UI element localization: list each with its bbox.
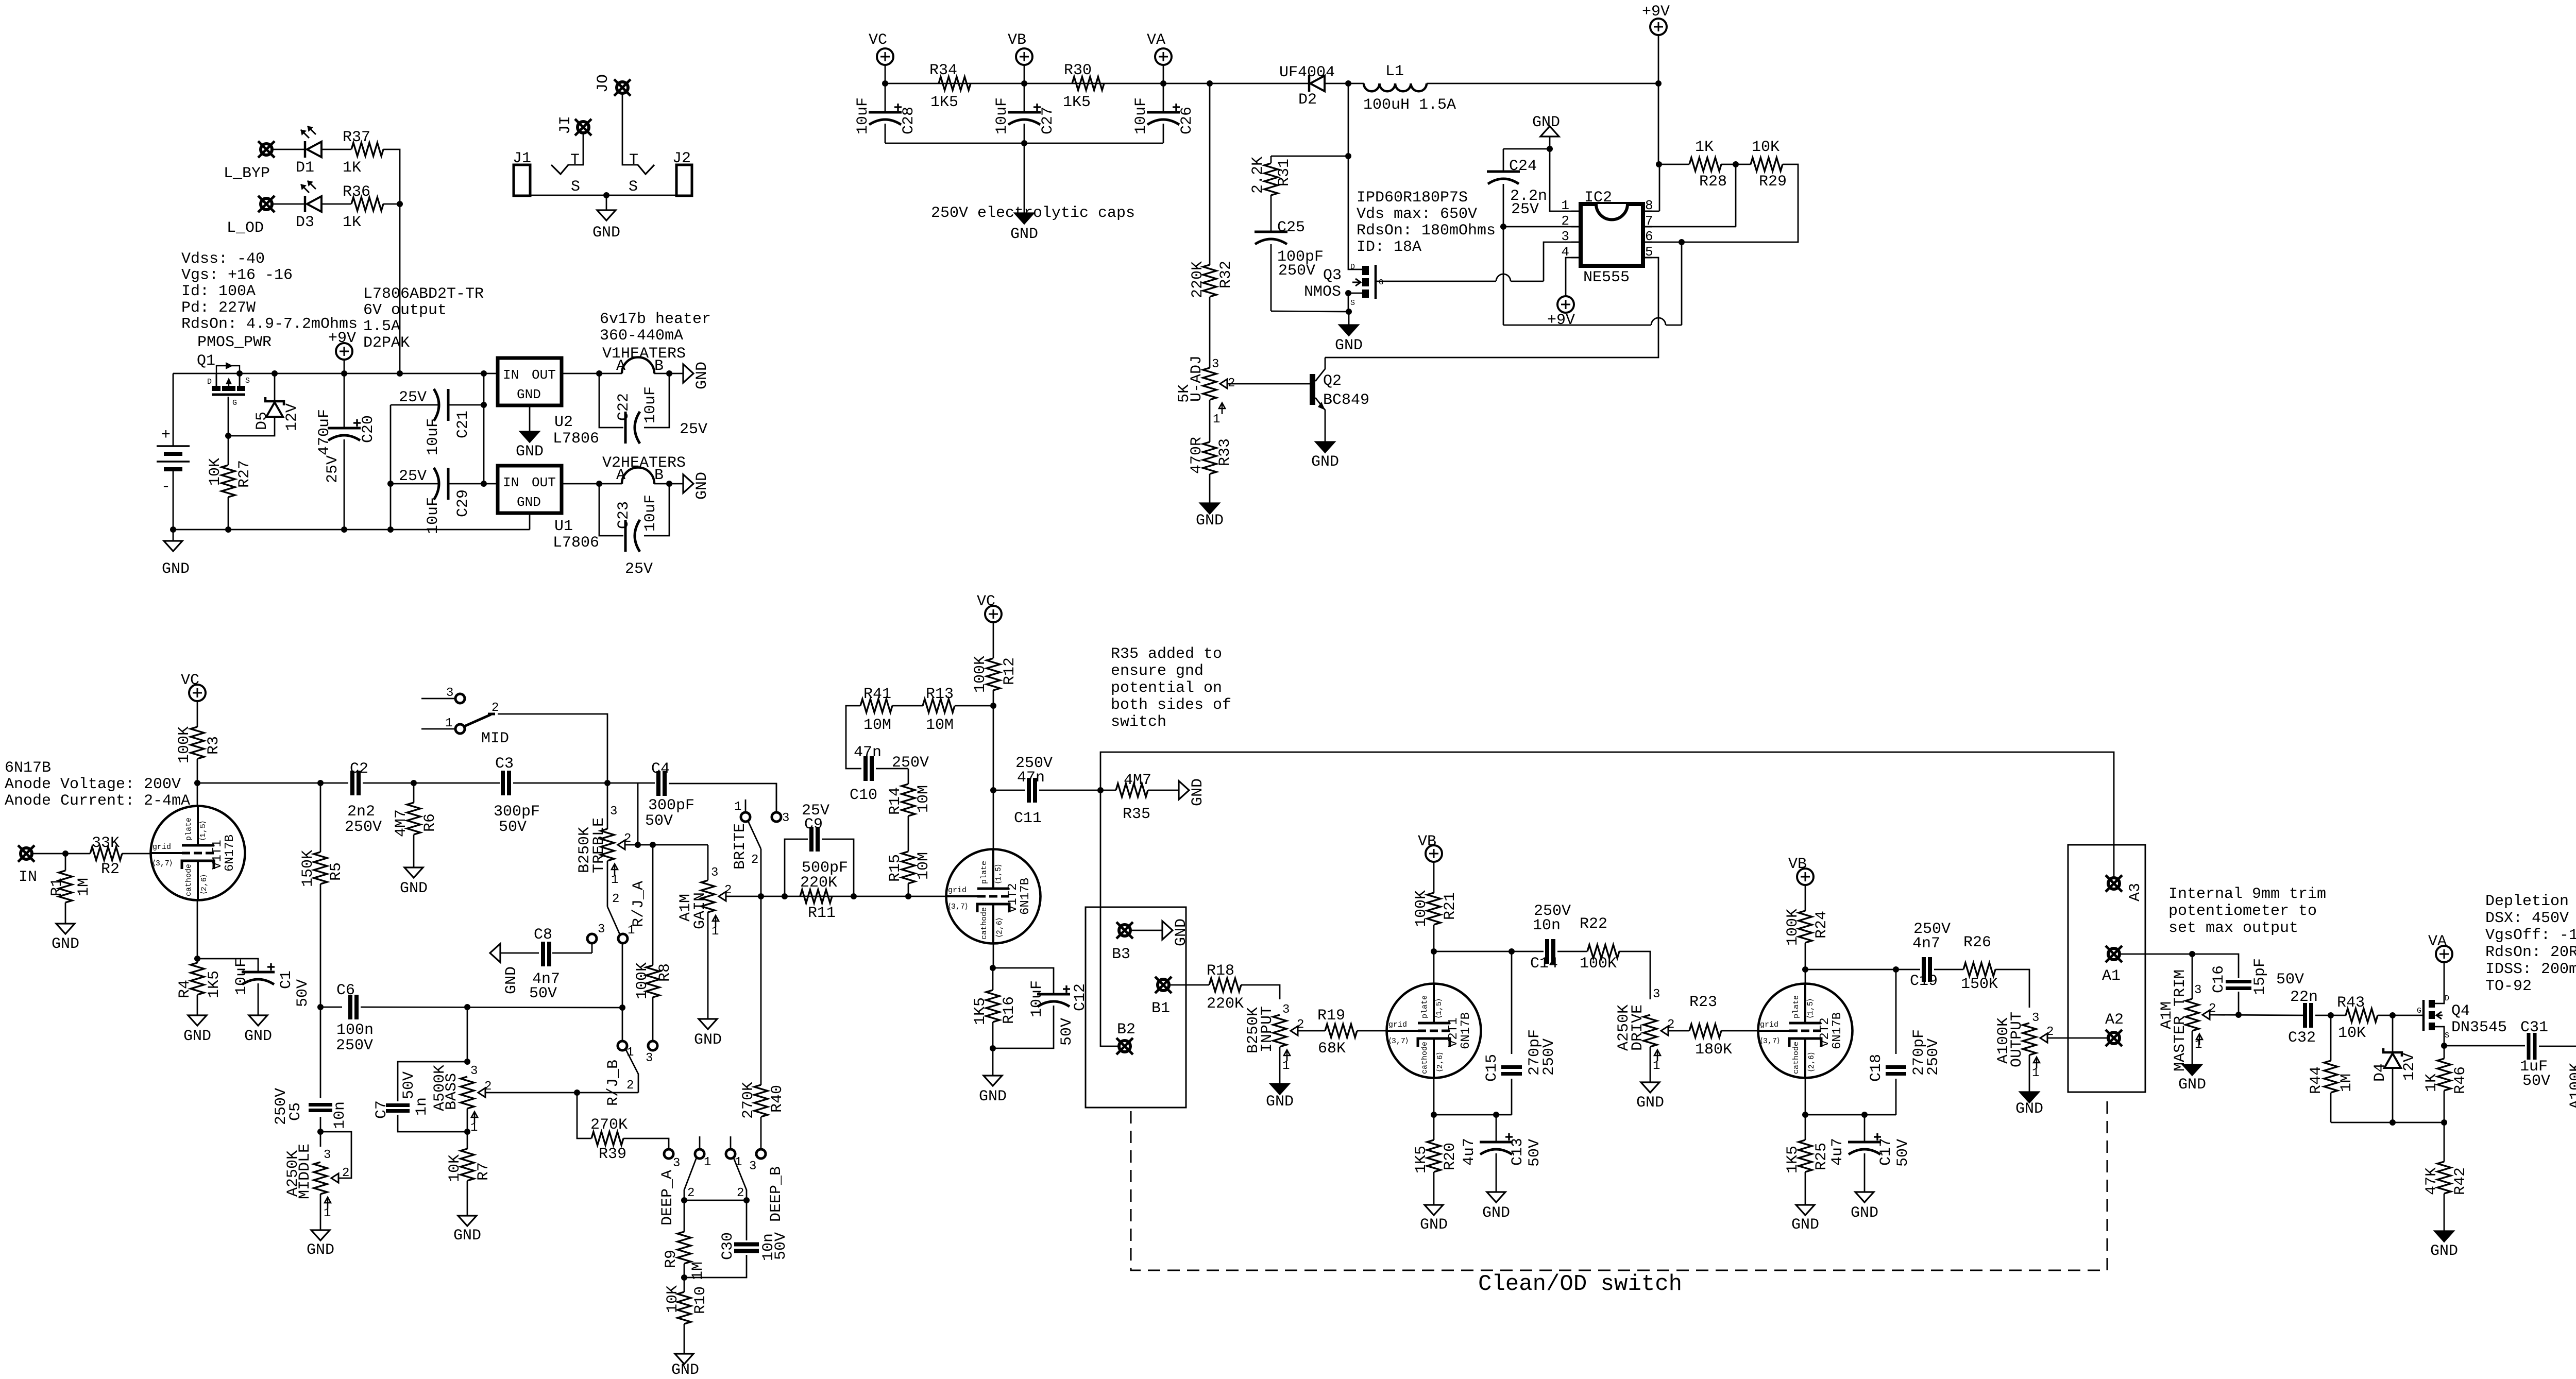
svg-text:Vgs: +16 -16: Vgs: +16 -16 xyxy=(181,267,293,284)
svg-text:100K: 100K xyxy=(634,962,651,999)
svg-text:25V: 25V xyxy=(680,421,707,438)
resistor R41 10M xyxy=(860,699,892,712)
wire C2-C3 xyxy=(363,782,500,784)
svg-text:+9V: +9V xyxy=(328,330,356,347)
jack JO tip contact xyxy=(622,93,638,165)
svg-text:R8: R8 xyxy=(656,963,674,982)
ground R25 xyxy=(1805,1172,1806,1205)
svg-text:10uF: 10uF xyxy=(993,97,1011,134)
wire R44/D4/R46 bottom row xyxy=(2330,1093,2332,1122)
wire MID to plate node xyxy=(498,714,607,783)
svg-text:2: 2 xyxy=(492,701,499,715)
svg-text:INPUT: INPUT xyxy=(1259,1006,1276,1052)
svg-text:DEEP_B: DEEP_B xyxy=(768,1166,785,1222)
switch MID xyxy=(455,694,465,703)
switch DEEP_B xyxy=(726,1149,735,1159)
svg-text:R/J_B: R/J_B xyxy=(605,1060,622,1106)
svg-text:G: G xyxy=(2417,1007,2421,1015)
capacitor C16 15pF xyxy=(2192,954,2239,978)
capacitor C6 100n 250V xyxy=(348,995,352,1019)
svg-text:1K5: 1K5 xyxy=(1063,94,1091,111)
wire C6 row xyxy=(320,884,321,1007)
wire D1-R37 xyxy=(321,149,351,150)
svg-text:8: 8 xyxy=(1645,198,1653,213)
wire R41-R13 xyxy=(892,705,923,707)
resistor R7 10K xyxy=(467,1132,468,1149)
svg-text:GND: GND xyxy=(693,472,711,500)
svg-text:10M: 10M xyxy=(915,852,933,880)
svg-text:B3: B3 xyxy=(1112,946,1130,963)
battery BT1 xyxy=(173,373,174,446)
svg-text:47K: 47K xyxy=(2423,1167,2441,1195)
svg-text:GND: GND xyxy=(517,387,541,402)
svg-text:C19: C19 xyxy=(1910,973,1938,990)
ground R1 xyxy=(65,903,66,924)
svg-text:Anode Voltage: 200V: Anode Voltage: 200V xyxy=(5,776,181,793)
wire C31 to MASTER pin3 xyxy=(2539,1046,2576,1069)
svg-text:RdsOn: 180mOhms: RdsOn: 180mOhms xyxy=(1357,222,1496,240)
svg-text:GND: GND xyxy=(1189,778,1207,806)
svg-text:50V: 50V xyxy=(1894,1139,1912,1167)
svg-text:DSX: 450V: DSX: 450V xyxy=(2485,910,2569,927)
ground R20 xyxy=(1433,1172,1435,1205)
ground jack sleeve xyxy=(603,192,609,198)
svg-text:5: 5 xyxy=(1645,244,1653,260)
ground R7 xyxy=(467,1181,468,1216)
svg-text:10uF: 10uF xyxy=(642,386,659,423)
svg-text:S: S xyxy=(571,178,580,196)
wire pin2-pin6 loop xyxy=(1503,227,1504,325)
wire R9-R10 junction xyxy=(684,1264,685,1292)
resistor R14 10M xyxy=(908,816,909,852)
svg-text:+: + xyxy=(161,427,171,444)
wire GAIN pin3 xyxy=(707,845,709,880)
port L_OD xyxy=(261,198,272,210)
svg-text:22n: 22n xyxy=(2290,989,2318,1006)
svg-text:GND: GND xyxy=(1791,1216,1819,1234)
svg-text:6N17B: 6N17B xyxy=(1831,1012,1844,1049)
svg-text:L7806: L7806 xyxy=(553,534,599,552)
capacitor C17 4u7 50V xyxy=(1805,1114,1896,1116)
svg-text:1K: 1K xyxy=(1695,139,1714,156)
svg-text:3: 3 xyxy=(598,923,605,937)
svg-text:C14: C14 xyxy=(1530,955,1558,973)
svg-text:250V: 250V xyxy=(336,1037,373,1054)
svg-text:33K: 33K xyxy=(92,835,120,852)
svg-text:C8: C8 xyxy=(534,926,552,944)
svg-text:2: 2 xyxy=(1228,377,1235,390)
svg-text:A1: A1 xyxy=(2102,967,2121,985)
svg-text:100K: 100K xyxy=(176,726,193,763)
resistor R36 1K xyxy=(351,197,383,211)
svg-text:DEEP_A: DEEP_A xyxy=(659,1170,676,1225)
svg-text:GND: GND xyxy=(1335,337,1363,354)
svg-text:OUT: OUT xyxy=(532,475,556,490)
svg-text:MASTER TRIM: MASTER TRIM xyxy=(2172,969,2189,1071)
svg-text:Vds max: 650V: Vds max: 650V xyxy=(1357,206,1477,223)
svg-text:GND: GND xyxy=(1482,1204,1510,1222)
svg-text:Q3: Q3 xyxy=(1323,267,1342,284)
potentiometer DRIVE A250K xyxy=(1643,1015,1657,1047)
svg-text:GND: GND xyxy=(400,880,428,897)
svg-text:150K: 150K xyxy=(1961,976,1998,993)
ground R35 xyxy=(1148,790,1179,791)
svg-text:cathode: cathode xyxy=(184,864,193,896)
power +9V top xyxy=(1650,19,1667,35)
wire trim wiper row xyxy=(2210,1015,2303,1015)
wire +9V column to R28/pin8 xyxy=(1658,83,1659,164)
svg-text:50V: 50V xyxy=(1526,1139,1544,1167)
svg-text:GND: GND xyxy=(52,935,79,953)
wire cap ground rail xyxy=(885,143,1163,144)
resistor R24 100K xyxy=(1799,911,1812,943)
resistor R32 220K xyxy=(1209,83,1211,265)
svg-text:NMOS: NMOS xyxy=(1304,283,1341,301)
resistor R23 180K xyxy=(1689,1024,1721,1037)
wire Q3 gate to 555 pin3 xyxy=(1376,281,1496,282)
svg-text:1M: 1M xyxy=(75,878,93,896)
wire R43 to Q4 gate xyxy=(2378,1015,2422,1016)
svg-text:GND: GND xyxy=(1420,1216,1448,1234)
svg-text:C2: C2 xyxy=(350,760,368,778)
zener D4 12V xyxy=(2392,1015,2394,1052)
svg-text:L1: L1 xyxy=(1385,63,1404,80)
svg-text:100K: 100K xyxy=(1580,955,1617,973)
ground INPUT xyxy=(1279,1047,1281,1084)
svg-text:R7: R7 xyxy=(475,1162,493,1181)
svg-text:10uF: 10uF xyxy=(1132,97,1150,134)
resistor R42 47K xyxy=(2444,1122,2445,1162)
resistor R16 1K5 xyxy=(992,968,994,990)
svg-text:3: 3 xyxy=(711,866,718,880)
switch R/J_A xyxy=(587,934,597,943)
ic IC2 NE555 xyxy=(1581,204,1643,266)
svg-text:10K: 10K xyxy=(2338,1025,2366,1042)
svg-text:G: G xyxy=(232,399,237,407)
svg-text:180K: 180K xyxy=(1695,1041,1732,1059)
svg-text:C28: C28 xyxy=(900,107,918,134)
wire V2T2 plate node xyxy=(1805,943,1806,984)
ground DRIVE xyxy=(1650,1047,1651,1082)
tube V2T1 cathode node xyxy=(1433,1078,1435,1115)
svg-text:50V: 50V xyxy=(2276,971,2304,989)
svg-text:10M: 10M xyxy=(863,717,891,734)
wire D2 junction xyxy=(1325,83,1364,84)
wire IN xyxy=(32,853,90,855)
svg-text:R42: R42 xyxy=(2452,1167,2469,1195)
capacitor C32 22n 50V xyxy=(2303,1003,2307,1028)
svg-text:⟨2,6⟩: ⟨2,6⟩ xyxy=(1807,1052,1816,1072)
svg-text:R25: R25 xyxy=(1813,1143,1831,1170)
capacitor C25 100pF 250V xyxy=(1270,195,1272,231)
ground R10 xyxy=(684,1324,685,1354)
wire ground rail xyxy=(173,529,530,531)
capacitor C3 300pF 50V xyxy=(501,771,505,795)
svg-text:IN: IN xyxy=(503,367,519,383)
wire C14 to R22 xyxy=(1557,951,1587,952)
ground MASTER TRIM xyxy=(2192,1031,2193,1065)
wire R/J_A pin3 to C8 xyxy=(591,943,593,953)
svg-text:⟨1,5⟩: ⟨1,5⟩ xyxy=(994,864,1003,884)
svg-text:R21: R21 xyxy=(1442,892,1459,920)
svg-text:220K: 220K xyxy=(1207,995,1244,1013)
svg-text:2: 2 xyxy=(2046,1025,2054,1039)
resistor R12 100K xyxy=(987,658,1000,690)
svg-text:R44: R44 xyxy=(2308,1066,2325,1094)
svg-text:1n: 1n xyxy=(413,1097,431,1116)
power VC V1T2 xyxy=(985,606,1002,622)
svg-text:1.5A: 1.5A xyxy=(363,318,400,335)
svg-text:BC849: BC849 xyxy=(1323,391,1369,409)
svg-text:3: 3 xyxy=(324,1148,331,1162)
capacitor C13 4u7 50V xyxy=(1434,1114,1512,1116)
svg-text:3: 3 xyxy=(2194,983,2201,997)
svg-text:VC: VC xyxy=(869,31,887,49)
svg-text:R46: R46 xyxy=(2452,1066,2469,1094)
capacitor C26 10uF xyxy=(1163,83,1164,111)
capacitor C20 470uF 25V xyxy=(341,370,347,377)
capacitor C28 10uF xyxy=(885,83,886,111)
ground B3 xyxy=(1130,930,1162,931)
svg-text:6V output: 6V output xyxy=(363,302,447,319)
svg-text:1: 1 xyxy=(704,1155,711,1169)
svg-text:R31: R31 xyxy=(1276,159,1293,186)
port IN xyxy=(21,848,32,859)
svg-text:R39: R39 xyxy=(599,1146,626,1163)
svg-text:50V: 50V xyxy=(2522,1072,2550,1090)
regulator U1 L7806 xyxy=(498,466,562,513)
svg-text:2: 2 xyxy=(737,1186,744,1200)
power VB V2T2 xyxy=(1797,869,1814,885)
svg-text:10K: 10K xyxy=(664,1285,682,1313)
svg-text:VB: VB xyxy=(1418,833,1436,850)
svg-text:IN: IN xyxy=(503,475,519,490)
svg-text:R28: R28 xyxy=(1699,173,1727,191)
svg-text:10n: 10n xyxy=(331,1101,349,1129)
wire DEEP levers common xyxy=(684,1200,747,1201)
ground V2 heater xyxy=(669,483,683,485)
wire IN risers xyxy=(397,370,403,377)
wire R23 to V2T2 grid xyxy=(1721,1030,1758,1032)
svg-text:R33: R33 xyxy=(1216,438,1234,466)
wire C11 to R35 node xyxy=(1039,790,1100,791)
svg-text:3: 3 xyxy=(2032,1011,2039,1025)
svg-text:250V: 250V xyxy=(892,754,929,772)
svg-text:1: 1 xyxy=(1282,1059,1290,1073)
switch DEEP_A xyxy=(664,1149,673,1159)
svg-text:DN3545: DN3545 xyxy=(2451,1019,2507,1036)
svg-text:⟨2,6⟩: ⟨2,6⟩ xyxy=(1436,1052,1445,1072)
svg-text:470R: 470R xyxy=(1188,437,1206,474)
svg-text:VA: VA xyxy=(1147,31,1165,49)
svg-text:C12: C12 xyxy=(1072,983,1089,1011)
svg-text:R12: R12 xyxy=(1001,657,1019,685)
potentiometer MASTER TRIM A1M xyxy=(2192,954,2193,999)
svg-text:10uF: 10uF xyxy=(1028,980,1046,1017)
svg-text:GND: GND xyxy=(517,495,541,510)
svg-text:C26: C26 xyxy=(1178,107,1196,134)
svg-text:potential on: potential on xyxy=(1111,679,1222,697)
potentiometer MIDDLE A250K xyxy=(320,1132,321,1147)
svg-text:C11: C11 xyxy=(1014,810,1042,827)
capacitor C5 10n 250V xyxy=(320,1007,321,1098)
svg-text:VB: VB xyxy=(1788,856,1807,873)
svg-text:15pF: 15pF xyxy=(2251,958,2269,995)
svg-text:GAIN: GAIN xyxy=(691,892,709,929)
svg-text:V2T2: V2T2 xyxy=(1818,1017,1832,1047)
svg-text:V1HEATERS: V1HEATERS xyxy=(602,345,686,363)
resistor R44 1M xyxy=(2330,1015,2332,1061)
svg-text:GND: GND xyxy=(503,966,520,994)
svg-text:D: D xyxy=(1350,263,1355,271)
svg-text:3: 3 xyxy=(1212,357,1219,371)
wire R28-R29 junction to pin7 xyxy=(1721,164,1751,165)
svg-text:T: T xyxy=(629,151,638,169)
svg-text:6N17B: 6N17B xyxy=(223,835,237,872)
svg-text:10n: 10n xyxy=(1533,917,1561,934)
svg-text:GND: GND xyxy=(1173,918,1190,946)
svg-text:GND: GND xyxy=(1196,512,1224,530)
svg-text:C20: C20 xyxy=(360,415,377,443)
svg-text:GND: GND xyxy=(1636,1094,1664,1112)
svg-text:G: G xyxy=(1379,278,1383,287)
wire L1 to +9V xyxy=(1427,83,1658,84)
svg-text:D4: D4 xyxy=(2371,1063,2389,1082)
svg-text:C18: C18 xyxy=(1868,1054,1885,1082)
svg-text:10uF: 10uF xyxy=(425,418,442,455)
svg-text:2: 2 xyxy=(1297,1018,1304,1032)
resistor R20 1K5 xyxy=(1433,1115,1435,1140)
wire GAIN wiper to grid row xyxy=(726,896,761,897)
svg-text:GND: GND xyxy=(1010,226,1038,243)
svg-text:both sides of: both sides of xyxy=(1111,696,1231,714)
svg-text:1: 1 xyxy=(1213,413,1220,427)
svg-text:A2: A2 xyxy=(2105,1011,2124,1029)
resistor R10 10K xyxy=(677,1292,691,1324)
svg-text:VB: VB xyxy=(1008,31,1026,49)
svg-text:plate: plate xyxy=(1792,995,1801,1018)
svg-text:2: 2 xyxy=(1667,1018,1674,1032)
potentiometer TREBLE B250K xyxy=(607,783,608,829)
svg-text:R30: R30 xyxy=(1064,62,1092,79)
svg-text:360-440mA: 360-440mA xyxy=(600,327,683,345)
resistor R39 270K xyxy=(591,1132,623,1145)
svg-text:2: 2 xyxy=(624,832,631,846)
svg-text:GND: GND xyxy=(979,1088,1007,1105)
ground C13 xyxy=(1487,1192,1505,1202)
svg-text:V1T1: V1T1 xyxy=(211,840,225,870)
svg-text:100K: 100K xyxy=(1413,890,1430,927)
wire V1T1 plate node xyxy=(197,759,198,783)
svg-text:NE555: NE555 xyxy=(1583,269,1630,286)
port JI xyxy=(578,122,589,133)
ground battery xyxy=(170,526,176,533)
svg-text:R24: R24 xyxy=(1813,911,1831,939)
wire V1T2 plate node xyxy=(993,706,994,790)
wire R22 to DRIVE xyxy=(1619,951,1650,999)
wire R37 to rail xyxy=(383,149,400,204)
svg-text:⟨2,6⟩: ⟨2,6⟩ xyxy=(995,917,1004,938)
resistor R19 68K xyxy=(1325,1024,1357,1037)
wire pin4 to +9V xyxy=(1566,258,1571,296)
wire switch node to A3 xyxy=(1100,752,2114,878)
svg-text:C10: C10 xyxy=(850,787,877,804)
resistor R1 1M xyxy=(65,854,66,871)
svg-text:1: 1 xyxy=(611,873,618,887)
svg-text:D2PAK: D2PAK xyxy=(363,334,410,352)
capacitor C19 4n7 250V xyxy=(1922,957,1926,982)
svg-text:GND: GND xyxy=(2015,1100,2043,1118)
ground R33 xyxy=(1209,474,1211,503)
svg-text:10K: 10K xyxy=(1752,139,1780,156)
ground V1 heater xyxy=(669,373,683,374)
led D1 xyxy=(272,149,305,150)
wire R18 to INPUT pot xyxy=(1241,985,1280,999)
ground U2 xyxy=(529,405,531,432)
svg-text:10M: 10M xyxy=(915,785,933,813)
svg-text:⟨1,5⟩: ⟨1,5⟩ xyxy=(1806,998,1815,1018)
svg-text:1K: 1K xyxy=(343,214,361,231)
svg-text:3: 3 xyxy=(610,805,617,819)
svg-text:GND: GND xyxy=(2430,1242,2458,1260)
svg-text:470uF: 470uF xyxy=(316,409,333,455)
svg-text:50V: 50V xyxy=(529,985,557,1002)
svg-text:1K5: 1K5 xyxy=(930,94,958,111)
svg-text:VC: VC xyxy=(977,593,995,610)
svg-text:47n: 47n xyxy=(1017,769,1045,787)
power +9V 555 xyxy=(1557,296,1574,313)
svg-text:R14: R14 xyxy=(887,787,904,815)
svg-text:plate: plate xyxy=(184,818,193,841)
svg-text:3: 3 xyxy=(1561,229,1569,244)
svg-text:GND: GND xyxy=(1851,1204,1878,1222)
svg-text:T: T xyxy=(570,151,580,169)
resistor R29 10K xyxy=(1751,158,1783,171)
wire R2 to V1T1 grid xyxy=(122,853,150,855)
ground R16/C12 xyxy=(992,1022,994,1048)
svg-text:A3: A3 xyxy=(2127,883,2144,901)
svg-text:RdsOn: 20R: RdsOn: 20R xyxy=(2485,944,2576,961)
wire B+ rail xyxy=(885,83,1309,84)
svg-text:R27: R27 xyxy=(236,460,253,488)
svg-text:grid: grid xyxy=(152,843,171,852)
svg-text:S: S xyxy=(2445,1031,2449,1040)
svg-text:2.2K: 2.2K xyxy=(1249,157,1267,194)
svg-text:R15: R15 xyxy=(887,854,904,882)
svg-text:B1: B1 xyxy=(1151,1000,1170,1017)
svg-text:R36: R36 xyxy=(343,183,370,201)
svg-text:grid: grid xyxy=(1388,1020,1407,1029)
regulator U2 L7806 xyxy=(498,358,562,405)
svg-text:1: 1 xyxy=(2032,1066,2039,1080)
svg-text:100K: 100K xyxy=(1784,909,1802,946)
resistor R9 1M xyxy=(684,1200,685,1232)
svg-text:GND: GND xyxy=(592,224,620,242)
resistor R33 470R xyxy=(1209,400,1211,442)
svg-text:R4: R4 xyxy=(176,980,194,998)
svg-text:GND: GND xyxy=(307,1241,334,1259)
resistor R28 1K xyxy=(1659,164,1689,165)
resistor R18 220K xyxy=(1209,978,1241,992)
wire grid row main xyxy=(761,896,946,897)
svg-text:1: 1 xyxy=(470,1121,478,1135)
svg-text:2: 2 xyxy=(626,1079,634,1093)
box clean side A xyxy=(2068,845,2145,1092)
svg-text:D2: D2 xyxy=(1298,91,1317,109)
svg-text:220K: 220K xyxy=(1189,261,1207,298)
inductor L1 100uH xyxy=(1364,83,1380,91)
svg-text:C22: C22 xyxy=(615,393,633,421)
